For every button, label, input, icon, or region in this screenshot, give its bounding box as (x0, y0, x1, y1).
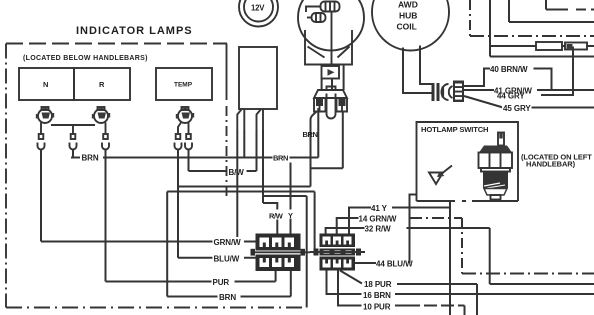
terminal squares (39, 134, 191, 139)
connector block left top row (256, 234, 301, 251)
wire headlamp connector right (342, 112, 344, 169)
headlamp bulb circle (298, 0, 364, 51)
bus line 2 (490, 0, 594, 57)
svg-text:HUB: HUB (399, 11, 417, 21)
wire 32 R/W right (407, 228, 594, 284)
wire PUR (106, 271, 276, 282)
headlamp connector plug (314, 87, 347, 119)
headlamp filament low (312, 13, 326, 22)
wire H4 right riser (314, 192, 316, 253)
svg-text:12V: 12V (251, 4, 265, 13)
wire N lamp to GRN/W (40, 150, 42, 242)
wire 14 GRN/W dashed right (410, 218, 594, 274)
inline connector block (453, 81, 464, 103)
wire 10 PUR (338, 271, 362, 306)
svg-text:BLU/W: BLU/W (214, 255, 240, 264)
wire to 40 BRN/W (464, 69, 490, 87)
svg-text:INDICATOR LAMPS: INDICATOR LAMPS (76, 25, 193, 37)
svg-text:BRN: BRN (273, 154, 288, 163)
wire TEMP left to BLU/W (177, 150, 179, 258)
svg-text:10 PUR: 10 PUR (363, 303, 391, 312)
svg-text:GRN/W: GRN/W (214, 238, 242, 247)
label 44 GRY (497, 92, 525, 101)
label 32 R/W (365, 225, 392, 234)
label 16 BRN (363, 291, 391, 300)
bus line 3 (509, 0, 594, 22)
located on left handlebar note (521, 153, 592, 169)
wire 14 GRN/W (337, 218, 359, 234)
svg-text:HOTLAMP SWITCH: HOTLAMP SWITCH (421, 125, 488, 134)
headlamp filament high (321, 2, 340, 12)
svg-text:32 R/W: 32 R/W (365, 225, 392, 234)
wire H5 (263, 195, 307, 197)
svg-text:TEMP: TEMP (174, 82, 193, 89)
headlamp arrow box (322, 66, 340, 79)
label 10 PUR (363, 303, 391, 312)
wire BRN bottom riser (166, 192, 168, 297)
wire shared lead to BRN (72, 150, 74, 158)
label GRN/W (213, 237, 245, 247)
svg-text:AWD: AWD (398, 0, 418, 10)
wire 16 BRN right (395, 293, 594, 295)
label B/W (228, 167, 247, 178)
wire 45 GRY right (532, 107, 594, 109)
wire boundary riser (306, 196, 308, 308)
wire 41 GRN/W right (537, 89, 594, 91)
wire 41 Y right (392, 207, 450, 209)
wire headlamp stair horizontal (311, 167, 343, 169)
label 45 GRY (502, 103, 533, 113)
wire to 41 GRN/W (464, 89, 494, 91)
svg-text:44 GRY: 44 GRY (497, 92, 525, 101)
wire Y riser (290, 163, 292, 234)
wire headlamp connector left BRN (311, 112, 317, 187)
svg-text:N: N (43, 80, 48, 89)
label PUR (212, 277, 235, 287)
bus line 5 with connectors (490, 42, 594, 50)
wire 44 GRY right (541, 47, 573, 96)
svg-text:41 Y: 41 Y (371, 204, 388, 213)
connector block right bottom row (320, 257, 356, 271)
label 14 GRN/W (359, 215, 397, 224)
label 18 PUR (364, 280, 392, 289)
svg-text:14 GRN/W: 14 GRN/W (359, 215, 397, 224)
wire BLU/W (178, 257, 256, 259)
label 44 BLU/W (376, 260, 413, 269)
wire H4 (167, 191, 314, 193)
lamp R (92, 107, 110, 123)
switch bulb element (479, 133, 513, 200)
svg-text:COIL: COIL (397, 22, 417, 32)
svg-text:BRN: BRN (219, 293, 236, 302)
headlamp wires down (322, 65, 344, 91)
AWD hub coil (372, 0, 449, 51)
indicator box TEMP (156, 68, 212, 100)
wire to 45 GRY (464, 96, 503, 108)
indicator box N (19, 68, 74, 100)
label BLU/W (213, 254, 245, 264)
wire switch feed down (449, 201, 451, 315)
bus line 4 (546, 0, 594, 10)
located below handlebars note (23, 55, 148, 62)
wire TEMP right to B/W (188, 150, 190, 172)
wire R lamp to PUR (105, 150, 107, 282)
svg-text:PUR: PUR (213, 278, 230, 287)
wire 41 Y (349, 208, 371, 234)
connector block right top row (320, 234, 356, 248)
label Y (287, 210, 296, 221)
lamp TEMP (176, 107, 194, 123)
relay box (239, 47, 277, 109)
wire BRN bottom (167, 271, 291, 297)
12V accessory circle (239, 0, 278, 27)
svg-text:BRN: BRN (303, 130, 318, 139)
wire lamp R right lead (105, 123, 107, 135)
label 41 Y (371, 204, 388, 213)
wire 40 BRN/W right (534, 69, 552, 91)
relay prong 1 (237, 109, 244, 130)
label 40 BRN/W (490, 65, 528, 74)
terminal cups (38, 143, 193, 150)
hotlamp switch box (417, 122, 519, 201)
svg-text:R: R (99, 80, 105, 89)
svg-text:18 PUR: 18 PUR (364, 280, 392, 289)
wire 32 R/W (326, 228, 365, 234)
wire B/W horizontal (189, 170, 257, 172)
wire prong1 right down (243, 130, 245, 158)
wire 44 BLU/W riser (410, 195, 417, 264)
wire 18 PUR right (397, 284, 477, 315)
headlamp body (305, 30, 352, 65)
wire R/W corner (263, 203, 277, 234)
label BRN bottom (218, 292, 241, 302)
svg-text:45 GRY: 45 GRY (503, 104, 531, 113)
wire prong2 left to B/W (256, 130, 258, 171)
label 41 GRN/W (494, 87, 532, 96)
lamp N (36, 107, 54, 123)
svg-text:16 BRN: 16 BRN (363, 291, 391, 300)
label BRN mid (273, 153, 290, 163)
wire GRN/W (41, 241, 256, 243)
wire lamp N left lead (40, 123, 42, 135)
label BRN headlamp (303, 130, 318, 139)
wire H3 (179, 186, 311, 188)
headlamp filament leads (306, 7, 332, 67)
top right harness bus (470, 0, 594, 36)
wire prong1 left down (236, 130, 238, 242)
wire lamp TEMP leads (178, 123, 189, 135)
wire 44 BLU/W (355, 262, 377, 264)
wire BRN horizontal (71, 108, 318, 158)
svg-text:HANDLEBAR): HANDLEBAR) (526, 160, 576, 169)
title INDICATOR LAMPS (76, 25, 193, 37)
connector right mating band (310, 249, 365, 256)
svg-text:R/W: R/W (269, 212, 284, 221)
connector left mating line (251, 249, 319, 256)
wire 18 PUR diagonal (340, 271, 362, 284)
connector block left bottom row (256, 255, 301, 272)
label R/W (269, 210, 287, 221)
wire 16 BRN (327, 271, 362, 295)
relay prong 2 (257, 109, 264, 130)
inline connector bullets (432, 83, 453, 101)
svg-text:BRN: BRN (82, 154, 99, 163)
svg-text:40 BRN/W: 40 BRN/W (490, 65, 528, 74)
wire lamp link bar (51, 125, 95, 134)
wire prong2 right to R/W (262, 130, 264, 203)
svg-text:Y: Y (288, 211, 293, 220)
svg-text:(LOCATED BELOW HANDLEBARS): (LOCATED BELOW HANDLEBARS) (23, 55, 148, 62)
label BRN left (80, 152, 103, 163)
svg-text:44 BLU/W: 44 BLU/W (376, 260, 413, 269)
wire 10 PUR right dashed (395, 306, 465, 315)
indicator box R (74, 68, 130, 100)
wire coil neck (403, 46, 432, 94)
switch symbol (429, 166, 452, 185)
indicator lamps group dashed border (6, 44, 307, 308)
